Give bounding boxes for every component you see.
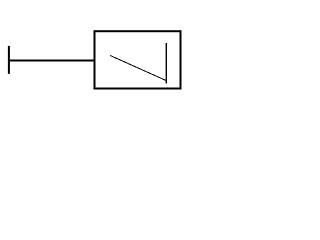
terminal: [8, 46, 10, 74]
sawtooth symbol: vertical flyback: [165, 43, 167, 84]
generator box G1: [95, 31, 181, 88]
wire: [9, 60, 95, 62]
sawtooth symbol: falling ramp: [110, 56, 166, 81]
